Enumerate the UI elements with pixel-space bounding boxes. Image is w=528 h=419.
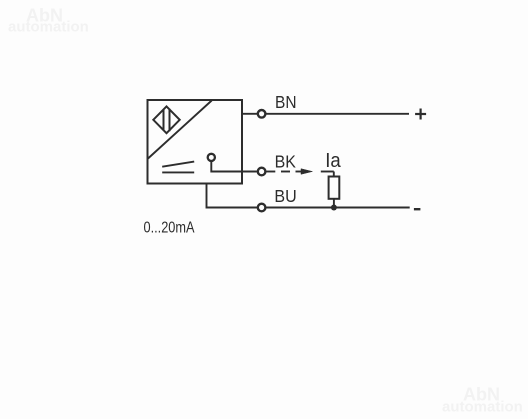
plus symbol: [415, 109, 426, 120]
watermark top-left: [8, 6, 89, 36]
svg-text:BU: BU: [274, 186, 296, 206]
BN wire to plus: [266, 113, 409, 115]
diagonal divider: [148, 101, 212, 159]
internal output circle: [208, 154, 215, 161]
wire box to BN terminal: [242, 113, 257, 115]
analog ramp symbol: [162, 162, 194, 167]
inductive sensor diamond symbol: [153, 106, 179, 133]
svg-text:BN: BN: [275, 92, 297, 112]
arrowhead on BK wire: [301, 169, 312, 175]
wire internal circle to BK terminal: [211, 161, 257, 171]
svg-text:automation: automation: [8, 19, 89, 36]
minus symbol: [414, 208, 421, 210]
BN terminal circle: [258, 110, 266, 118]
junction dot: [331, 205, 337, 211]
diamond inner bar left: [163, 110, 165, 131]
resistor bottom lead: [333, 199, 335, 208]
diamond inner bar right: [169, 109, 171, 131]
BU terminal circle: [258, 204, 266, 212]
sensor body box: [148, 100, 243, 184]
svg-text:BK: BK: [275, 151, 297, 171]
BU wire to minus: [266, 207, 409, 209]
load resistor: [329, 177, 340, 199]
svg-text:0...20mA: 0...20mA: [144, 220, 195, 237]
svg-text:automation: automation: [442, 399, 523, 416]
wire box bottom to BU terminal: [207, 184, 258, 208]
watermark bottom-right: [442, 385, 523, 416]
BK terminal circle: [258, 168, 266, 176]
BK dashed wire: [266, 172, 334, 177]
svg-text:Ia: Ia: [325, 150, 341, 172]
